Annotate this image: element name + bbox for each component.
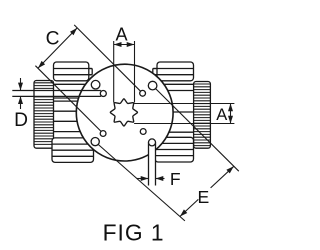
left lower finned block [52, 138, 94, 163]
dimension A right bottom extension line [134, 123, 234, 125]
right upper block fin [153, 68, 194, 70]
dimension F right arrow [156, 178, 165, 180]
dimension A right arrow line [230, 104, 232, 124]
left upper block fin [54, 74, 93, 76]
hole lower-left large [91, 138, 99, 146]
right knurl fins [194, 83, 211, 85]
svg-text:FIG 1: FIG 1 [103, 220, 165, 246]
left lower block fin [52, 143, 96, 145]
right middle knurled block [194, 82, 211, 149]
dimension C extension line through upper-right small hole [74, 25, 140, 91]
right lower block fin [155, 142, 194, 144]
dimension C extension line through lower-left small hole [35, 66, 101, 132]
right upper finned block [157, 62, 194, 81]
right pin right line / F extension [155, 142, 157, 185]
left pin round end [100, 91, 106, 97]
svg-text:A: A [116, 24, 129, 44]
svg-text:A: A [216, 106, 227, 124]
hole lower-right small [140, 129, 146, 135]
hole upper-right small [140, 90, 146, 96]
svg-text:D: D [14, 110, 28, 131]
hole lower-left small [100, 131, 106, 137]
left hub step lines [54, 83, 87, 85]
right pin round end [149, 139, 156, 146]
dimension A right top extension line [134, 103, 234, 105]
dimension E arrow line lower segment [180, 199, 198, 216]
left knurl fins [34, 82, 54, 84]
dimension A top arrow line [114, 44, 135, 46]
svg-text:C: C [46, 28, 60, 49]
right lower block fin [155, 155, 194, 157]
dimension A top left extension line [113, 41, 115, 103]
central star-shaped hole [110, 99, 137, 126]
right upper block side tab [153, 69, 161, 75]
dimension A top right extension line [134, 41, 136, 103]
left upper finned block [54, 62, 89, 81]
left middle knurled block [34, 81, 54, 149]
left pin top line / D extension [12, 90, 101, 92]
left lower block fin [52, 155, 94, 157]
hole upper-left large [91, 80, 100, 89]
dimension F left arrow [137, 178, 149, 180]
right upper block fin [153, 74, 194, 76]
left pin bottom line / D extension [12, 95, 101, 97]
left lower block fin [52, 149, 96, 151]
dimension D upper arrow [20, 78, 22, 90]
dimension C arrow line [38, 28, 77, 68]
dimension E extension line through lower-left large hole [98, 145, 185, 221]
right pin body [149, 142, 156, 185]
left upper block side tab [85, 69, 92, 75]
left upper block fin [54, 68, 93, 70]
right lower finned block [155, 137, 194, 162]
right hub step lines [164, 83, 194, 85]
dimension E arrow line upper segment [211, 166, 234, 188]
central disc [76, 64, 173, 161]
dimension E extension line through upper-right large hole [156, 89, 239, 172]
svg-text:F: F [170, 169, 181, 189]
svg-text:E: E [198, 187, 210, 207]
right lower block fin [155, 149, 194, 151]
hole upper-right large [148, 81, 157, 90]
right pin left line / F extension [148, 142, 150, 185]
dimension D lower arrow [20, 96, 22, 109]
left lower block side tab [90, 144, 96, 150]
